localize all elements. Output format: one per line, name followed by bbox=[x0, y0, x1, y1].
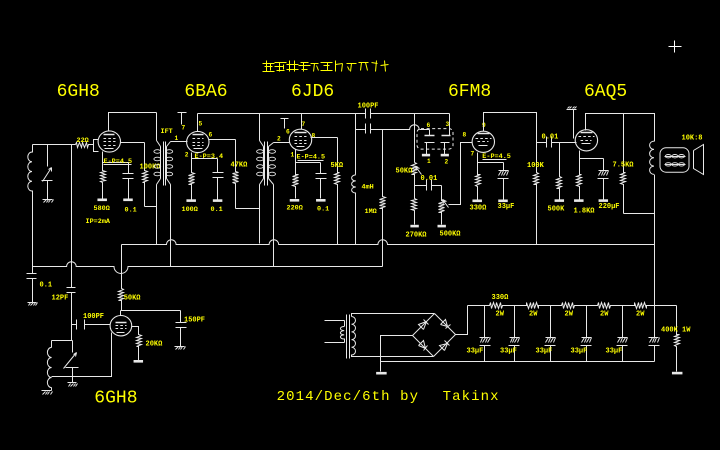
wire 7.5K bottom to B+ vertical bbox=[624, 213, 655, 215]
inverted ground above V5 (beam plates) bbox=[567, 109, 577, 111]
resistor 50Kohm oscillator plate bbox=[119, 283, 124, 311]
svg-text:2W: 2W bbox=[600, 311, 609, 319]
resistor 2W #3 bbox=[551, 303, 587, 309]
svg-text:100PF: 100PF bbox=[83, 313, 104, 321]
svg-text:330Ω: 330Ω bbox=[470, 205, 488, 213]
resistor 270Kohm bbox=[412, 197, 417, 225]
wire AVC line with hop over detector line bbox=[383, 125, 420, 130]
svg-text:47KΩ: 47KΩ bbox=[231, 162, 249, 170]
wire V5 plate rail to OPT bbox=[586, 114, 655, 142]
AGC bus with hop and dip-under bbox=[33, 262, 383, 274]
wire V1 plate to rail bbox=[109, 113, 157, 131]
tube V2 6BA6 IF amplifier bbox=[187, 131, 209, 152]
IFT2 primary winding bbox=[259, 114, 261, 141]
ground below 1.8K bbox=[574, 199, 584, 202]
svg-text:220μF: 220μF bbox=[599, 203, 620, 211]
svg-text:400K 1W: 400K 1W bbox=[661, 327, 691, 335]
IFT1 core bbox=[163, 142, 165, 186]
diode D2 cathode bbox=[441, 142, 450, 144]
svg-text:1MΩ: 1MΩ bbox=[365, 208, 377, 216]
speaker cone bbox=[694, 145, 704, 175]
svg-text:100PF: 100PF bbox=[358, 103, 379, 111]
svg-text:150PF: 150PF bbox=[184, 317, 205, 325]
resistor 2W #4 bbox=[587, 303, 623, 309]
svg-text:10K:8: 10K:8 bbox=[682, 135, 703, 143]
power transformer secondary winding bbox=[352, 317, 356, 356]
svg-text:6GH8: 6GH8 bbox=[57, 82, 100, 102]
ground below 100ohm bbox=[186, 199, 196, 202]
svg-text:6BA6: 6BA6 bbox=[184, 82, 227, 102]
crosshair cursor bbox=[669, 46, 682, 48]
detector dual diode box (6FM8 diode section) bbox=[417, 129, 453, 150]
wire V3 cathode bbox=[296, 150, 321, 163]
svg-text:0.1: 0.1 bbox=[211, 206, 223, 214]
bridge rectifier diamond bbox=[413, 314, 435, 336]
power transformer core bbox=[346, 315, 348, 359]
wire 22ohm to grid of V1 bbox=[94, 140, 99, 145]
svg-text:50KΩ: 50KΩ bbox=[396, 168, 414, 176]
wire V3 plate rail to detector bbox=[303, 113, 366, 115]
capacitor 33uF bypass V4 bbox=[503, 163, 505, 171]
svg-text:2014/Dec/6th by: 2014/Dec/6th by bbox=[277, 389, 420, 405]
tuning variable capacitor VC1 bbox=[47, 145, 49, 167]
wire capB to 1M junction bbox=[371, 129, 383, 131]
svg-text:3: 3 bbox=[446, 121, 450, 128]
wire secondary top to bridge bbox=[352, 314, 435, 317]
svg-text:4mH: 4mH bbox=[362, 184, 374, 192]
svg-text:33μF: 33μF bbox=[606, 348, 623, 356]
svg-text:IP=2mA: IP=2mA bbox=[86, 218, 111, 226]
svg-text:1: 1 bbox=[291, 152, 295, 159]
wire V5 cathode bbox=[580, 151, 604, 159]
svg-text:22Ω: 22Ω bbox=[77, 137, 89, 145]
wire osc cathode to coil tap bbox=[52, 333, 112, 377]
capacitor 33uF filter #3 bbox=[550, 306, 552, 338]
svg-text:12PF: 12PF bbox=[52, 295, 69, 303]
wire V3 screen to 5K bbox=[311, 137, 338, 139]
svg-text:7: 7 bbox=[182, 125, 186, 132]
wiper arrow 500K and wire to V4 grid bbox=[443, 200, 449, 208]
svg-text:6: 6 bbox=[427, 122, 431, 129]
svg-text:500KΩ: 500KΩ bbox=[440, 231, 462, 239]
svg-text:0.01: 0.01 bbox=[542, 133, 559, 141]
capacitor 0.1 bypass V3 bbox=[320, 163, 322, 174]
speaker coil row1 bbox=[665, 155, 671, 158]
svg-text:Takinx: Takinx bbox=[443, 389, 500, 405]
resistor 500K grid V5 bbox=[557, 143, 562, 200]
wire antenna top bbox=[33, 144, 76, 146]
svg-text:2W: 2W bbox=[529, 311, 538, 319]
RF choke 4mH bbox=[352, 175, 356, 193]
potentiometer 500K volume bbox=[441, 186, 443, 197]
grid3-cathode stub V1 bbox=[94, 145, 99, 152]
speaker driver body bbox=[660, 148, 689, 172]
wire IFT1 primary bottom to B+ bus bbox=[156, 185, 158, 245]
bridge diode D4 bbox=[440, 344, 448, 351]
wire capA to detector bbox=[371, 113, 415, 115]
resistor 47Kohm screen V2 bbox=[233, 140, 239, 209]
wire 47K bottom jog bbox=[236, 208, 260, 210]
svg-text:33μF: 33μF bbox=[500, 348, 517, 356]
svg-text:33μF: 33μF bbox=[571, 348, 588, 356]
svg-text:2: 2 bbox=[445, 159, 449, 166]
svg-text:330Ω: 330Ω bbox=[492, 294, 510, 302]
svg-text:2: 2 bbox=[185, 152, 189, 159]
wire to 270K bbox=[414, 181, 416, 197]
svg-text:7.5KΩ: 7.5KΩ bbox=[613, 162, 635, 170]
tube V4 6FM8 triode AF amp bbox=[472, 131, 494, 152]
wire IFT2 secondary bottom AGC drop bbox=[269, 179, 274, 185]
svg-text:IFT: IFT bbox=[161, 128, 173, 136]
ground below 33uF bbox=[498, 200, 508, 203]
wire V1 cathode bbox=[103, 152, 129, 163]
bridge diode D3 bbox=[419, 341, 426, 349]
svg-text:6JD6: 6JD6 bbox=[291, 82, 334, 102]
svg-text:0.1: 0.1 bbox=[317, 206, 329, 214]
capacitor 100PF B (to AVC diode) bbox=[356, 129, 366, 131]
power transformer primary leads bbox=[325, 320, 345, 322]
wire secondary bottom to bridge bbox=[352, 355, 434, 357]
ground below osc coil bbox=[42, 390, 52, 392]
resistor 100ohm cathode V2 bbox=[189, 167, 195, 200]
ground below 0.1 V3 bbox=[316, 199, 326, 202]
resistor 100K plate load V4 bbox=[534, 169, 539, 245]
terminal pin1 bbox=[422, 154, 430, 157]
wire V2 cathode bbox=[192, 153, 218, 159]
wire detector load line bbox=[414, 114, 416, 163]
svg-text:580Ω: 580Ω bbox=[94, 205, 110, 213]
wire to 150PF bbox=[121, 310, 181, 312]
svg-text:6: 6 bbox=[286, 129, 290, 136]
wire bridge minus to ground bbox=[381, 336, 413, 372]
PSU filter rail with dropping resistors bbox=[468, 305, 490, 307]
ground below 580ohm bbox=[97, 199, 107, 202]
wire rail to 400K bleeder bbox=[655, 305, 677, 307]
svg-text:0.01: 0.01 bbox=[421, 175, 438, 183]
wire V1 screen to 100K line bbox=[121, 142, 145, 144]
svg-text:1.8KΩ: 1.8KΩ bbox=[574, 208, 596, 216]
wire V3 plate pin to rail bbox=[301, 114, 303, 130]
terminal pin2 bbox=[441, 154, 449, 157]
svg-text:1: 1 bbox=[175, 135, 179, 142]
antenna coil L1 bbox=[32, 145, 34, 153]
capacitor 12PF injection bbox=[71, 263, 73, 288]
ground below 0.1 AGC bbox=[28, 302, 37, 304]
svg-text:2W: 2W bbox=[565, 311, 574, 319]
capacitor 0.1 AGC filter bbox=[32, 267, 34, 274]
svg-text:1: 1 bbox=[427, 158, 431, 165]
svg-text:2W: 2W bbox=[496, 311, 505, 319]
svg-text:6: 6 bbox=[209, 132, 213, 139]
IFT1 primary winding bbox=[156, 113, 158, 141]
svg-text:33μF: 33μF bbox=[536, 348, 553, 356]
capacitor 150PF bbox=[180, 311, 182, 323]
resistor 2W #2 bbox=[515, 303, 551, 309]
tube V5 6AQ5 output bbox=[575, 130, 597, 151]
resistor 330ohm 2W #1 bbox=[485, 303, 515, 309]
svg-text:100K: 100K bbox=[527, 162, 545, 170]
wire V2 screen to 47K bbox=[209, 139, 236, 141]
ground below 150PF bbox=[175, 346, 185, 348]
wiper arrow 50K bbox=[416, 167, 422, 175]
capacitor 33uF filter #4 bbox=[586, 306, 588, 338]
wire OPT primary bottom down to PSU bbox=[654, 175, 656, 338]
wire IFT2 secondary top to V3 grid bbox=[269, 143, 274, 147]
potentiometer 50K detector load bbox=[412, 163, 417, 181]
resistor 220ohm cathode V3 bbox=[293, 169, 299, 199]
capacitor 0.01 coupling to V5 bbox=[546, 137, 548, 148]
ground below 220uF bbox=[599, 199, 609, 202]
resistor 20Kohm bbox=[137, 333, 142, 361]
ground below 400K bbox=[672, 372, 683, 375]
capacitor 220uF bypass V5 bbox=[603, 159, 605, 171]
title 他励式5球ヘテロダイン (drawn strokes) bbox=[263, 63, 275, 65]
wire osc plate bbox=[120, 311, 122, 316]
resistor 2W #5 bbox=[623, 303, 655, 309]
wire IFT1 secondary top to V2 grid bbox=[167, 142, 171, 147]
svg-text:E-P=3.4: E-P=3.4 bbox=[195, 153, 224, 161]
svg-text:270KΩ: 270KΩ bbox=[406, 232, 428, 240]
wire junction plate to coupling cap bbox=[537, 142, 547, 144]
resistor 580ohm cathode V1 bbox=[101, 167, 106, 199]
tube V1b 6GH8 triode oscillator bbox=[110, 316, 132, 336]
wire IFT2 primary bottom to B+ bus bbox=[259, 185, 261, 244]
capacitor 33uF filter #2 bbox=[514, 306, 516, 338]
terminal T-bar above V2 bbox=[178, 112, 187, 114]
wire 100K bottom jog to B+ drop bbox=[145, 206, 157, 208]
resistor 1.8Kohm cathode V5 bbox=[577, 169, 582, 200]
PSU ground symbol bbox=[376, 372, 387, 375]
wire B+ bus drop to oscillator bbox=[121, 245, 123, 283]
power transformer primary winding bbox=[344, 321, 346, 327]
wire V4 cathode bbox=[478, 153, 504, 163]
svg-text:6FM8: 6FM8 bbox=[448, 82, 491, 102]
resistor 22ohm grid stopper bbox=[76, 143, 94, 148]
tube V1 6GH8 pentode (mixer) bbox=[98, 131, 120, 152]
wire osc grid2 to 20K bbox=[132, 327, 139, 333]
terminal T-bar above V3 bbox=[281, 118, 289, 120]
svg-text:50KΩ: 50KΩ bbox=[124, 295, 142, 303]
capacitor 100PF osc grid bbox=[72, 324, 77, 326]
ground below 20K bbox=[134, 360, 144, 363]
wire 1M bottom crossing B+ bus (hop) to AGC bus bbox=[382, 211, 384, 267]
ground below 330ohm bbox=[472, 200, 482, 203]
wire V4 plate to 100K bbox=[484, 113, 537, 169]
ground below osc varcap bbox=[68, 382, 77, 384]
wire 4mH bottom to B+ bus bbox=[355, 193, 357, 245]
svg-text:6GH8: 6GH8 bbox=[94, 389, 137, 409]
svg-text:7: 7 bbox=[302, 121, 306, 128]
capacitor 33uF filter #6 (on OPT line) bbox=[649, 337, 659, 339]
resistor 400K 1W bleeder bbox=[675, 306, 680, 372]
svg-text:8: 8 bbox=[463, 132, 467, 139]
IFT1 secondary winding bbox=[166, 147, 168, 179]
ground below 0.1 bbox=[123, 199, 133, 202]
diode D1 plate pin 6 bbox=[429, 130, 431, 136]
wire bridge plus up to filter rail bbox=[456, 306, 468, 335]
oscillator coil bbox=[72, 340, 73, 342]
svg-text:6AQ5: 6AQ5 bbox=[584, 82, 627, 102]
tube V3 6JD6 IF amplifier bbox=[289, 129, 311, 150]
svg-text:7: 7 bbox=[471, 151, 475, 158]
terminal bar below 270K bbox=[410, 225, 418, 228]
svg-text:2W: 2W bbox=[636, 311, 645, 319]
svg-text:20KΩ: 20KΩ bbox=[146, 341, 164, 349]
PSU common rail bbox=[381, 361, 655, 363]
svg-text:500K: 500K bbox=[548, 206, 566, 214]
diode D1 cathode bbox=[425, 142, 435, 144]
terminal bar below 500K bbox=[438, 225, 446, 228]
svg-text:33μF: 33μF bbox=[498, 203, 515, 211]
svg-text:100Ω: 100Ω bbox=[182, 206, 198, 214]
svg-text:0.1: 0.1 bbox=[40, 282, 53, 290]
resistor 330ohm cathode V4 bbox=[476, 169, 481, 200]
IFT2 core bbox=[264, 142, 266, 186]
svg-text:5: 5 bbox=[199, 121, 203, 128]
capacitor 0.01 coupling to AF bbox=[415, 185, 427, 187]
resistor 5Kohm screen V3 bbox=[335, 138, 340, 245]
svg-text:33μF: 33μF bbox=[467, 348, 484, 356]
resistor 7.5Kohm across OPT bbox=[621, 114, 626, 214]
diode D2 plate pin 3 bbox=[449, 114, 451, 136]
svg-text:5KΩ: 5KΩ bbox=[331, 162, 344, 170]
capacitor 33uF filter #5 bbox=[622, 306, 624, 338]
svg-text:220Ω: 220Ω bbox=[287, 205, 303, 213]
capacitor 0.1 bypass V2 bbox=[217, 159, 219, 173]
capacitor 0.1 cathode bypass V1 bbox=[128, 163, 130, 174]
speaker coil row2 bbox=[665, 163, 671, 166]
IFT2 secondary winding bbox=[268, 147, 270, 179]
resistor 100Kohm screen feed bbox=[143, 143, 148, 207]
svg-text:0.1: 0.1 bbox=[125, 207, 137, 215]
ground below VC1 bbox=[43, 199, 53, 201]
wire V2 plate rail to IFT2 bbox=[197, 114, 199, 132]
junction drop to 4mH and cap B bbox=[355, 114, 357, 175]
bridge diode D2 bbox=[441, 320, 448, 327]
B+ bus with hops bbox=[122, 240, 655, 245]
svg-text:2: 2 bbox=[277, 136, 281, 143]
variable capacitor osc tuning bbox=[72, 341, 74, 353]
ground below 500K bbox=[555, 199, 565, 202]
wire IFT1 secondary bottom AGC drop bbox=[167, 179, 171, 185]
ground below 0.1 V2 bbox=[213, 199, 223, 202]
OPT output transformer primary bbox=[650, 141, 654, 174]
ground below 220ohm bbox=[290, 199, 300, 202]
resistor 1Mohm AVC bbox=[382, 130, 384, 196]
bridge diode D1 bbox=[419, 322, 427, 330]
wire injection line from antenna bus down to oscillator (x=71) bbox=[71, 145, 73, 263]
capacitor 33uF filter #1 bbox=[484, 306, 486, 338]
